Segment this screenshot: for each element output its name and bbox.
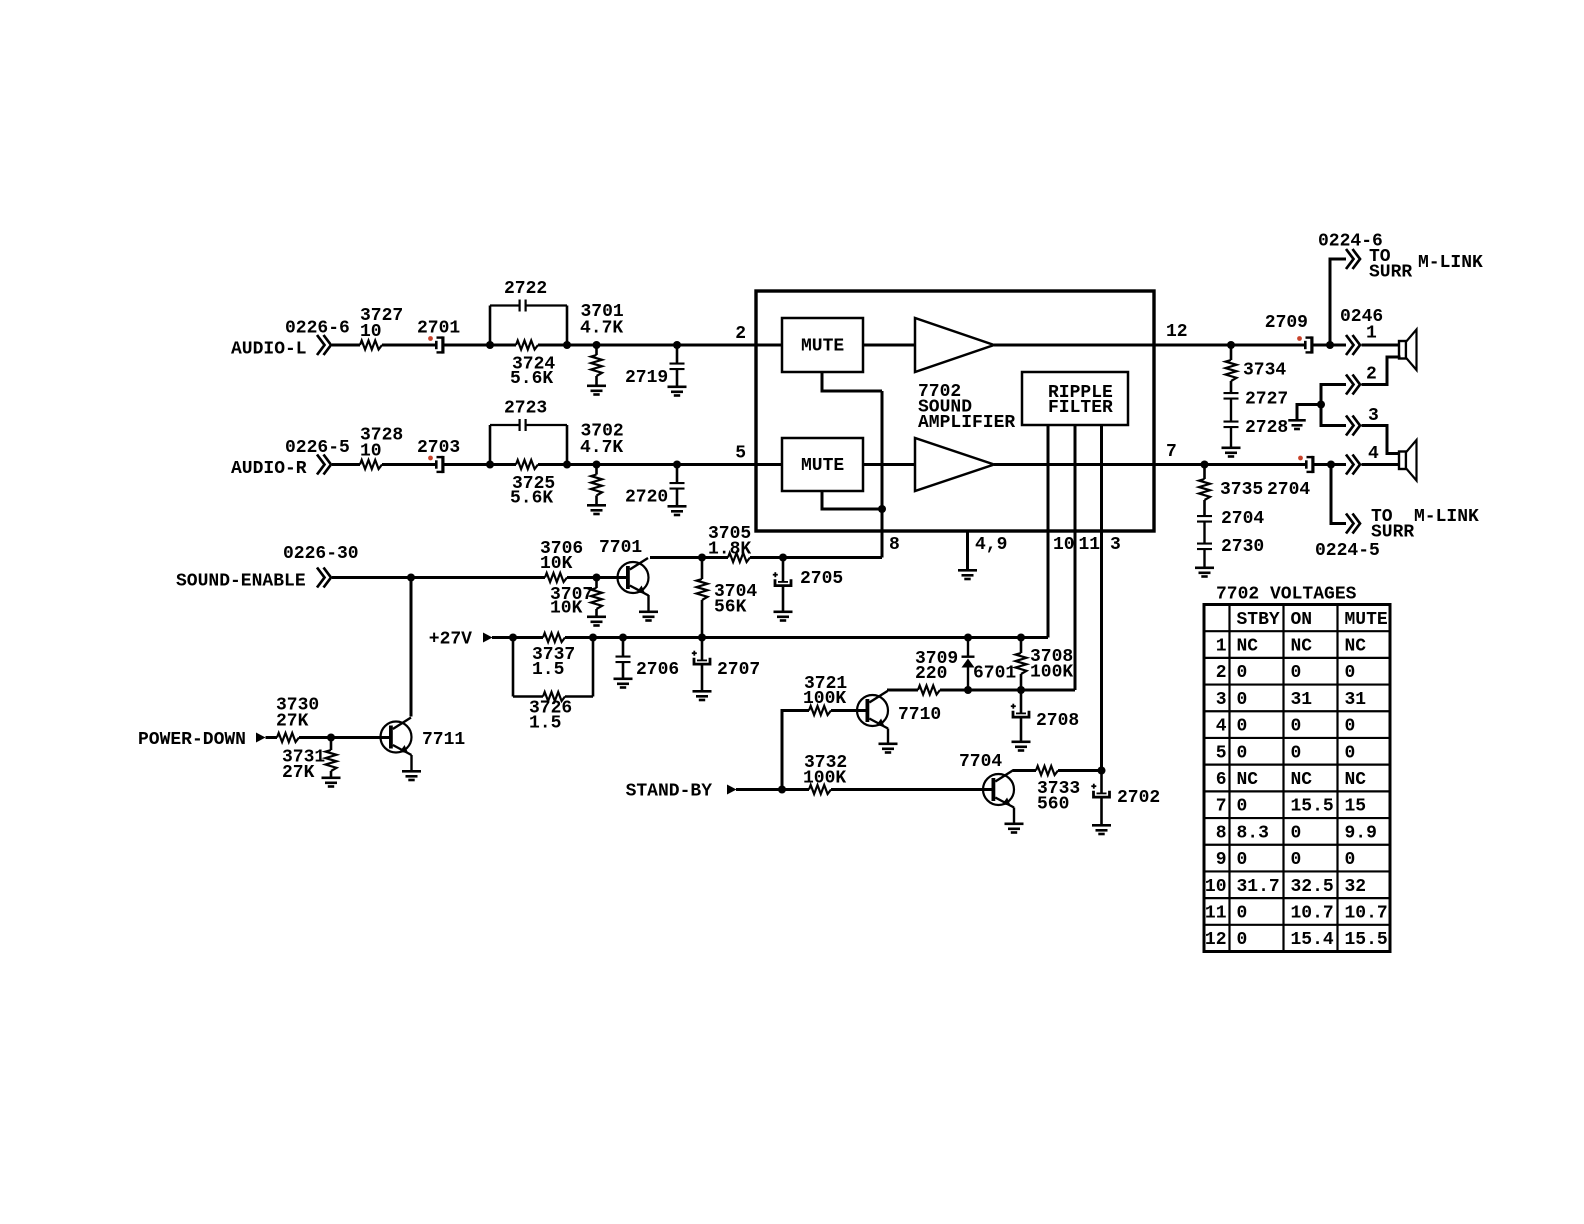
svg-text:560: 560 [1037, 795, 1069, 815]
wire pin4-9 stem [966, 531, 969, 570]
svg-text:MUTE: MUTE [1345, 610, 1388, 630]
wire audio-R in [332, 463, 360, 466]
connector 0246-3 chevron [1346, 406, 1379, 436]
pin 8 label [889, 535, 900, 555]
resistor 3725 [510, 460, 555, 509]
resistor 3724 [510, 341, 555, 390]
svg-text:3: 3 [1110, 535, 1121, 555]
capacitor 2702 [1091, 771, 1160, 825]
svg-text:0: 0 [1291, 663, 1302, 683]
svg-text:2719: 2719 [625, 368, 668, 388]
svg-text:32: 32 [1345, 877, 1367, 897]
connector 0246 label [1340, 307, 1383, 327]
ground 3735 chain [1195, 567, 1214, 578]
arrow +27V [483, 633, 493, 643]
connector 0246-1 chevron [1346, 324, 1377, 356]
svg-text:7701: 7701 [599, 538, 642, 558]
svg-text:2707: 2707 [717, 660, 760, 680]
svg-text:POWER-DOWN: POWER-DOWN [138, 730, 246, 750]
node mute join [878, 505, 886, 513]
ground 3702 [587, 504, 606, 515]
wire pd in [266, 736, 278, 739]
transistor Q7704 [959, 752, 1014, 808]
svg-text:6: 6 [1216, 770, 1227, 790]
svg-text:M-LINK: M-LINK [1414, 507, 1479, 527]
mute block 2 [782, 438, 863, 491]
wire chev3 left [1321, 405, 1346, 426]
resistor 3733 [1036, 766, 1080, 815]
node A3 [593, 341, 601, 349]
service dot 2701 [428, 336, 433, 341]
resistor 3707 [550, 578, 602, 619]
svg-text:9.9: 9.9 [1345, 823, 1377, 843]
wire to 3702 [538, 463, 756, 466]
capacitor 2707 [692, 638, 760, 691]
wire chev2 left [1321, 385, 1346, 405]
wire sp1 return [1362, 357, 1401, 385]
svg-text:2: 2 [1366, 365, 1377, 385]
capacitor 2706 [616, 638, 680, 681]
wire mute2 to amp2 [863, 463, 915, 466]
wire up to 0224-6 [1330, 259, 1346, 345]
node SE2 [593, 574, 601, 582]
wire mute2 drop [822, 491, 882, 509]
resistor 3704 [697, 558, 758, 638]
node V4 [698, 634, 706, 642]
svg-text:NC: NC [1237, 637, 1259, 657]
op-amp U7702 box [756, 291, 1154, 531]
ground 2708 [1012, 741, 1031, 752]
wire chev1 to speaker [1362, 344, 1400, 347]
wire 2703 to node [445, 463, 517, 466]
resistor 3721 [803, 674, 847, 715]
svg-text:0: 0 [1237, 903, 1248, 923]
service dot 2703 [428, 456, 433, 461]
svg-text:2704: 2704 [1221, 509, 1264, 529]
wire amp2 to pin7 [994, 463, 1154, 466]
net AUDIO-L input label [231, 319, 350, 360]
svg-text:0: 0 [1345, 850, 1356, 870]
connector 0246-2 chevron [1346, 365, 1377, 395]
svg-text:100K: 100K [803, 689, 846, 709]
wire audio-L in [332, 344, 360, 347]
svg-text:11: 11 [1205, 903, 1227, 923]
svg-text:SOUND-ENABLE: SOUND-ENABLE [176, 572, 306, 592]
svg-text:SURR: SURR [1371, 523, 1414, 543]
svg-text:0: 0 [1237, 717, 1248, 737]
capacitor 2719 [625, 345, 685, 388]
svg-text:4.7K: 4.7K [580, 319, 623, 339]
svg-text:2720: 2720 [625, 488, 668, 508]
svg-text:NC: NC [1345, 770, 1367, 790]
wire pin8 vertical [881, 391, 884, 558]
wire 7711 emitter [410, 755, 412, 771]
svg-text:2706: 2706 [636, 660, 679, 680]
svg-text:10: 10 [1205, 877, 1227, 897]
node SB [778, 786, 786, 794]
svg-text:4,9: 4,9 [975, 535, 1007, 555]
svg-text:2709: 2709 [1265, 313, 1308, 333]
resistor 3705 [708, 524, 751, 562]
ground 2706 [614, 678, 633, 689]
node B2 [563, 461, 571, 469]
ic label 7702 SOUND AMPLIFIER [918, 382, 1015, 433]
svg-text:0: 0 [1237, 797, 1248, 817]
svg-text:NC: NC [1291, 637, 1313, 657]
resistor 3735 [1199, 465, 1263, 516]
node R4 [1201, 461, 1209, 469]
wire 3705 to 2705 [750, 556, 882, 559]
svg-text:0226-30: 0226-30 [283, 544, 359, 564]
pin 2 label [735, 324, 746, 344]
resistor 3702 [580, 422, 624, 505]
svg-text:5: 5 [735, 444, 746, 464]
node B3 [593, 461, 601, 469]
svg-text:0224-5: 0224-5 [1315, 541, 1380, 561]
svg-text:15.5: 15.5 [1291, 797, 1334, 817]
wire 3732 to 7704 [831, 788, 992, 791]
svg-text:NC: NC [1237, 770, 1259, 790]
wire to 3701 [538, 344, 756, 347]
node V1 [509, 634, 517, 642]
net AUDIO-R input label [231, 438, 350, 479]
pin 11 label [1079, 535, 1101, 555]
wire pin7 out [1154, 463, 1305, 466]
wire 3727 to 2701 [382, 344, 435, 347]
wire amp1 to pin12 [994, 344, 1154, 347]
node R3 [1317, 401, 1325, 409]
wire pin10 vertical [1047, 425, 1050, 638]
node R1 [1227, 341, 1235, 349]
svg-text:1.5: 1.5 [529, 714, 561, 734]
net SOUND-ENABLE label [176, 544, 359, 592]
svg-text:10K: 10K [540, 554, 573, 574]
service dot 2709 [1297, 336, 1302, 341]
svg-text:1: 1 [1216, 637, 1227, 657]
connector 0224-5 chevron [1315, 514, 1380, 562]
svg-text:12: 12 [1166, 322, 1188, 342]
svg-text:2704: 2704 [1267, 480, 1310, 500]
wire standby in [736, 788, 809, 791]
node E1 [1098, 767, 1106, 775]
svg-text:1.8K: 1.8K [708, 540, 751, 560]
svg-text:NC: NC [1345, 637, 1367, 657]
arrow POWER-DOWN [256, 733, 266, 743]
wire 2701 to node [445, 344, 517, 347]
svg-text:10K: 10K [550, 599, 583, 619]
node B4 [673, 461, 681, 469]
svg-text:AUDIO-L: AUDIO-L [231, 340, 307, 360]
svg-text:7: 7 [1166, 442, 1177, 462]
ground 2702 [1092, 824, 1111, 835]
wire chev3 to sp2 [1362, 426, 1400, 454]
pin 7 label [1166, 442, 1177, 462]
capacitor 2723 [490, 399, 567, 465]
svg-text:0: 0 [1291, 823, 1302, 843]
svg-text:2730: 2730 [1221, 537, 1264, 557]
service dot 2704 [1298, 456, 1303, 461]
capacitor 2720 [625, 465, 685, 508]
svg-text:2701: 2701 [417, 319, 460, 339]
wire 7711 collector [410, 578, 413, 717]
wire chev4 to sp2 [1362, 463, 1400, 466]
svg-text:5.6K: 5.6K [510, 489, 553, 509]
connector 0226-6 chevron [317, 335, 331, 355]
svg-text:M-LINK: M-LINK [1418, 253, 1483, 273]
svg-text:7711: 7711 [422, 730, 465, 750]
wire sound-enable [332, 576, 545, 579]
transistor Q7711 [381, 718, 466, 756]
svg-text:7710: 7710 [898, 705, 941, 725]
svg-text:7702 VOLTAGES: 7702 VOLTAGES [1216, 585, 1357, 605]
node V3 [619, 634, 627, 642]
net +27V label [429, 630, 472, 650]
svg-text:11: 11 [1079, 535, 1101, 555]
svg-text:2722: 2722 [504, 279, 547, 299]
resistor 3706 [540, 539, 583, 582]
wire mute1 drop [822, 372, 882, 391]
connector 0226-5 chevron [317, 455, 331, 475]
svg-text:10: 10 [1053, 535, 1075, 555]
svg-text:220: 220 [915, 664, 947, 684]
svg-text:31: 31 [1291, 690, 1313, 710]
diode 6701 [962, 638, 1017, 691]
node R2 [1326, 341, 1334, 349]
node R5 [1327, 461, 1335, 469]
svg-text:10.7: 10.7 [1291, 903, 1334, 923]
ground speakers [1288, 419, 1305, 430]
svg-text:100K: 100K [803, 769, 846, 789]
resistor 3734 [1226, 345, 1287, 393]
wire 7701 emitter [647, 595, 649, 611]
ground 3701 [587, 385, 606, 396]
node V6 [1017, 634, 1025, 642]
svg-text:3: 3 [1368, 406, 1379, 426]
connector 0226-30 chevron [317, 568, 331, 588]
svg-text:15: 15 [1345, 797, 1367, 817]
capacitor 2722 [490, 279, 567, 345]
amplifier A1 [915, 318, 994, 372]
svg-text:4.7K: 4.7K [580, 438, 623, 458]
svg-text:8: 8 [889, 535, 900, 555]
ground 3731 [322, 777, 341, 788]
svg-text:+27V: +27V [429, 630, 472, 650]
svg-text:2: 2 [1216, 663, 1227, 683]
resistor 3730 [276, 696, 319, 743]
svg-text:0: 0 [1237, 743, 1248, 763]
connector 2703 [417, 438, 460, 473]
ground 7711 [402, 770, 421, 781]
svg-text:5: 5 [1216, 743, 1227, 763]
svg-text:NC: NC [1291, 770, 1313, 790]
capacitor 2705 [773, 558, 843, 612]
svg-text:2708: 2708 [1036, 711, 1079, 731]
wire 2709 to chev [1314, 344, 1347, 347]
resistor 3701 [580, 302, 624, 385]
transistor Q7701 [599, 538, 649, 596]
svg-text:0: 0 [1345, 743, 1356, 763]
svg-text:31: 31 [1345, 690, 1367, 710]
resistor 3709 [915, 649, 958, 695]
connector 2704 [1267, 456, 1315, 500]
svg-text:STBY: STBY [1237, 610, 1280, 630]
node A4 [673, 341, 681, 349]
svg-text:0: 0 [1237, 690, 1248, 710]
svg-text:32.5: 32.5 [1291, 877, 1334, 897]
ground 3707 [587, 616, 606, 627]
svg-text:15.4: 15.4 [1291, 930, 1334, 950]
svg-text:3735: 3735 [1220, 480, 1263, 500]
ground pins 4-9 [958, 535, 1007, 580]
capacitor 2727 [1224, 390, 1289, 422]
svg-text:SURR: SURR [1369, 263, 1412, 283]
node B1 [486, 461, 494, 469]
label TO SURR top [1369, 247, 1483, 283]
wire 3709 to pin11 [940, 689, 1075, 692]
svg-text:3734: 3734 [1243, 361, 1286, 381]
svg-text:3: 3 [1216, 690, 1227, 710]
wire 2704 to chev [1315, 463, 1347, 466]
wire 3706 to 7701 [567, 576, 626, 579]
connector 2701 [417, 319, 460, 354]
wire 7704 collector rail [1013, 769, 1036, 772]
svg-text:56K: 56K [714, 598, 747, 618]
wire 7710 emitter [887, 729, 889, 744]
node D2 [1017, 686, 1025, 694]
wire mute1 to amp1 [863, 344, 915, 347]
arrow STAND-BY [727, 785, 737, 795]
pin 5 label [735, 444, 746, 464]
pin 10 label [1053, 535, 1075, 555]
capacitor 2704 [1197, 509, 1264, 543]
svg-text:0: 0 [1345, 717, 1356, 737]
wire 3730 to 7711 [299, 736, 389, 739]
ground 7701 [639, 611, 658, 622]
wire pin12 out [1154, 344, 1304, 347]
ground 2707 [693, 690, 712, 701]
capacitor 2708 [1011, 690, 1079, 741]
wire box-in L [756, 344, 782, 347]
svg-text:4: 4 [1216, 717, 1227, 737]
capacitor 2728 [1224, 418, 1289, 447]
resistor 3731 [282, 738, 337, 784]
svg-text:31.7: 31.7 [1237, 877, 1280, 897]
svg-text:0: 0 [1237, 663, 1248, 683]
svg-text:MUTE: MUTE [801, 337, 844, 357]
ground 2719 [668, 386, 687, 397]
pin 3 label [1110, 535, 1121, 555]
connector 0246-4 chevron [1346, 444, 1379, 475]
label TO SURR bottom [1371, 507, 1479, 543]
svg-text:2703: 2703 [417, 438, 460, 458]
svg-text:9: 9 [1216, 850, 1227, 870]
svg-text:10: 10 [360, 322, 382, 342]
resistor 3732 [803, 753, 847, 794]
wire 3721 elbow [782, 711, 809, 790]
node V5 [964, 634, 972, 642]
svg-text:7704: 7704 [959, 752, 1002, 772]
ground 2720 [668, 505, 687, 516]
svg-text:7: 7 [1216, 797, 1227, 817]
wire 3728 to 2703 [382, 463, 435, 466]
svg-text:0: 0 [1237, 930, 1248, 950]
svg-text:2723: 2723 [504, 399, 547, 419]
node D1 [964, 686, 972, 694]
svg-text:FILTER: FILTER [1048, 398, 1113, 418]
wire 3737 out [565, 636, 1048, 639]
pin 12 label [1166, 322, 1188, 342]
wire gnd stem [1297, 405, 1321, 420]
svg-text:0: 0 [1291, 850, 1302, 870]
ripple filter block [1022, 372, 1128, 425]
resistor 3726 loop [513, 638, 593, 734]
speaker SP2 [1399, 440, 1417, 481]
svg-text:6701: 6701 [973, 664, 1016, 684]
node C2 [779, 554, 787, 562]
wire 3733 to node [1058, 769, 1102, 772]
wire pin3 vertical [1100, 425, 1103, 771]
resistor 3737 [532, 633, 575, 680]
svg-text:MUTE: MUTE [801, 456, 844, 476]
net POWER-DOWN label [138, 730, 246, 750]
ground 7704 [1005, 823, 1024, 834]
svg-text:2705: 2705 [800, 569, 843, 589]
wire box-in R [756, 463, 782, 466]
svg-text:15.5: 15.5 [1345, 930, 1388, 950]
ground 7710 [879, 743, 898, 754]
wire pin11 vertical [1074, 425, 1077, 690]
wire down to 0224-5 [1331, 465, 1346, 524]
wire 7704 emitter [1013, 808, 1015, 824]
svg-text:1.5: 1.5 [532, 660, 564, 680]
svg-text:1: 1 [1366, 324, 1377, 344]
svg-text:4: 4 [1368, 444, 1379, 464]
ground 2705 [774, 611, 793, 622]
speaker SP1 [1399, 330, 1417, 371]
svg-text:0: 0 [1345, 663, 1356, 683]
svg-text:8.3: 8.3 [1237, 823, 1269, 843]
wire 7701 collector rail [650, 556, 702, 559]
resistor 3708 [1016, 638, 1074, 691]
svg-text:8: 8 [1216, 823, 1227, 843]
transistor Q7710 [857, 691, 941, 729]
svg-text:5.6K: 5.6K [510, 369, 553, 389]
node V2 [589, 634, 597, 642]
wire 7710 base [831, 709, 866, 712]
svg-text:100K: 100K [1030, 663, 1073, 683]
connector 0224-6 chevron [1318, 232, 1383, 270]
resistor 3728 [360, 426, 403, 470]
node PD [327, 734, 335, 742]
svg-text:AMPLIFIER: AMPLIFIER [918, 413, 1015, 433]
node A1 [486, 341, 494, 349]
svg-text:10: 10 [360, 442, 382, 462]
svg-text:ON: ON [1291, 610, 1313, 630]
wire to 3705 [702, 556, 728, 559]
node SE [407, 574, 415, 582]
svg-text:2702: 2702 [1117, 788, 1160, 808]
svg-text:2727: 2727 [1245, 390, 1288, 410]
svg-text:12: 12 [1205, 930, 1227, 950]
svg-text:27K: 27K [276, 712, 309, 732]
resistor 3727 [360, 306, 403, 350]
mute block 1 [782, 318, 863, 372]
node A2 [563, 341, 571, 349]
ground 3734 chain [1222, 447, 1241, 458]
amplifier A2 [915, 438, 994, 491]
connector 2709 [1265, 313, 1314, 354]
node C1 [698, 554, 706, 562]
